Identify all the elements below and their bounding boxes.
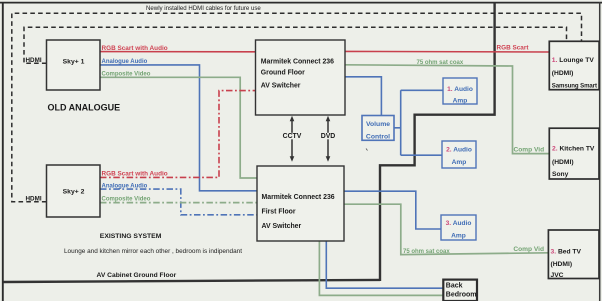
- svg-text:Sky+ 1: Sky+ 1: [63, 58, 85, 65]
- box 2. audio amp: [442, 141, 476, 168]
- wire: RGB scart GF switcher to Lounge TV (red): [345, 50, 550, 53]
- box 1. audio amp: [443, 78, 477, 104]
- wire: FF switcher to Back Bedroom (green): [319, 241, 443, 295]
- svg-text:Newly installed HDMI cables fo: Newly installed HDMI cables for future u…: [146, 5, 261, 12]
- svg-text:Sony: Sony: [552, 171, 569, 178]
- svg-text:Lounge and kitchen mirror each: Lounge and kitchen mirror each other , b…: [64, 248, 242, 255]
- svg-text:Marmitek Connect 236: Marmitek Connect 236: [261, 58, 334, 65]
- svg-text:RGB Scart with Audio: RGB Scart with Audio: [102, 45, 168, 52]
- svg-text:Amp: Amp: [452, 159, 467, 166]
- stray scan mark: [366, 149, 368, 151]
- wire: GF switcher to volume control (blue): [345, 77, 381, 116]
- svg-text:AV Switcher: AV Switcher: [261, 83, 301, 90]
- svg-text:Samsung Smart: Samsung Smart: [552, 82, 597, 89]
- box Back Bedroom: [443, 280, 477, 301]
- svg-text:Comp Vid: Comp Vid: [513, 246, 544, 253]
- CCTV arrow up into GF switcher: [291, 120, 293, 133]
- svg-text:Composite Video: Composite Video: [102, 72, 151, 78]
- wire: FF switcher to Bed TV comp vid (green): [344, 204, 548, 254]
- svg-text:(HDMI): (HDMI): [552, 159, 574, 166]
- page border top: [0, 2, 602, 4]
- svg-text:Volume: Volume: [366, 121, 390, 128]
- wire: FF switcher to 3. audio amp (blue): [344, 191, 441, 229]
- wire: analogue audio Sky+2 to FF switcher (blue dash-dot): [100, 189, 257, 215]
- svg-text:Sky+ 2: Sky+ 2: [63, 189, 85, 196]
- wire: analogue audio Sky+1 to FF switcher (blue): [100, 65, 257, 191]
- svg-text:(HDMI): (HDMI): [552, 70, 574, 77]
- svg-text:3. Bed TV: 3. Bed TV: [551, 248, 582, 255]
- box Kitchen TV: [549, 128, 599, 179]
- svg-text:2. Kitchen TV: 2. Kitchen TV: [552, 145, 595, 152]
- svg-text:Ground Floor: Ground Floor: [261, 70, 305, 77]
- svg-text:3. Audio: 3. Audio: [446, 220, 472, 227]
- svg-text:AV Switcher: AV Switcher: [262, 223, 302, 230]
- svg-text:CCTV: CCTV: [283, 133, 302, 140]
- AV cabinet stepped right edge: [380, 3, 495, 282]
- box Bed TV: [548, 230, 599, 279]
- svg-text:AV Cabinet Ground Floor: AV Cabinet Ground Floor: [97, 272, 177, 279]
- box volume control: [362, 116, 394, 141]
- AV cabinet bottom edge: [4, 280, 381, 282]
- svg-text:Composite Video: Composite Video: [102, 197, 151, 203]
- CCTV arrow down into FF switcher: [291, 139, 293, 157]
- svg-text:1. Audio: 1. Audio: [447, 86, 473, 93]
- box 3. audio amp: [441, 215, 476, 240]
- svg-text:75 ohm sat coax: 75 ohm sat coax: [417, 60, 464, 66]
- wire: 75 ohm sat coax GF to Kitchen TV (green): [345, 65, 549, 154]
- wire: composite video Sky+1 to FF switcher (green): [100, 77, 257, 178]
- box Lounge TV: [549, 41, 599, 89]
- box Marmitek GF switcher: [256, 40, 346, 115]
- svg-text:Bedroom: Bedroom: [446, 291, 477, 298]
- page border right: [599, 2, 601, 301]
- box Sky+ 2: [47, 165, 101, 217]
- svg-text:(HDMI): (HDMI): [551, 261, 573, 268]
- svg-text:Control: Control: [366, 134, 390, 141]
- svg-text:2. Audio: 2. Audio: [446, 147, 472, 154]
- DVD arrow down into FF switcher: [327, 139, 329, 157]
- svg-text:HDMI: HDMI: [26, 57, 42, 64]
- wire: composite video Sky+2 to FF switcher (green dash-dot): [100, 202, 257, 204]
- svg-text:RGB Scart with Audio: RGB Scart with Audio: [102, 171, 168, 178]
- HDMI dashed run to Sky+1 (inner): [24, 27, 567, 63]
- svg-text:EXISTING SYSTEM: EXISTING SYSTEM: [100, 233, 162, 240]
- page border left: [2, 2, 4, 301]
- svg-text:Analogue Audio: Analogue Audio: [102, 59, 148, 65]
- box Marmitek FF switcher: [257, 166, 344, 241]
- wire: RGB scart Sky+1 to GF switcher (red): [100, 51, 256, 53]
- svg-text:HDMI: HDMI: [26, 196, 42, 203]
- svg-text:Amp: Amp: [453, 98, 468, 105]
- HDMI dashed run to Sky+2 (outer): [12, 13, 582, 202]
- wire: FF switcher to Back Bedroom (blue): [326, 241, 443, 288]
- svg-text:Analogue Audio: Analogue Audio: [102, 183, 148, 189]
- svg-text:First Floor: First Floor: [262, 209, 296, 216]
- svg-text:Comp Vid: Comp Vid: [514, 147, 545, 154]
- svg-text:JVC: JVC: [551, 272, 564, 279]
- svg-text:Back: Back: [446, 283, 463, 290]
- svg-text:1. Lounge TV: 1. Lounge TV: [552, 57, 595, 64]
- svg-text:Amp: Amp: [451, 233, 466, 240]
- svg-text:DVD: DVD: [321, 133, 336, 140]
- wire: RGB scart Sky+2 to GF switcher (red dash-dot): [100, 91, 256, 178]
- wire: volume control to amps trunk (blue): [394, 90, 443, 155]
- svg-text:75 ohm sat coax: 75 ohm sat coax: [403, 249, 450, 255]
- DVD arrow up into GF switcher: [327, 120, 329, 133]
- box Sky+ 1: [47, 40, 101, 90]
- svg-text:RGB Scart: RGB Scart: [497, 45, 530, 52]
- svg-text:OLD ANALOGUE: OLD ANALOGUE: [48, 102, 121, 112]
- svg-text:Marmitek Connect 236: Marmitek Connect 236: [262, 194, 335, 201]
